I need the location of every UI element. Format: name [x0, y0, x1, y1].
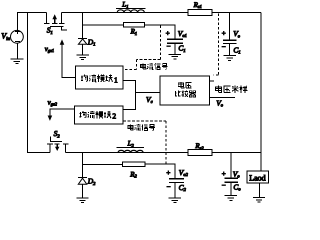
- wire top rail left: [17, 12, 47, 14]
- ground (C top bus): [223, 56, 235, 61]
- svg-text:+: +: [166, 30, 170, 38]
- capacitor C1: [167, 39, 183, 54]
- svg-text:Vo2: Vo2: [179, 168, 189, 177]
- ground (source): [10, 59, 23, 64]
- diode D1: [78, 38, 87, 55]
- capacitor C (top bus): [223, 13, 237, 56]
- wire bottom rail right: [212, 152, 261, 154]
- wire R1 tap: [83, 24, 124, 26]
- load box: [247, 153, 269, 197]
- svg-text:Rs1: Rs1: [193, 1, 202, 9]
- wire R2 to C2: [145, 164, 175, 179]
- svg-text:S2: S2: [54, 129, 61, 138]
- inductor L1: [116, 8, 145, 12]
- capacitor Co: [224, 153, 238, 195]
- svg-text:Vo: Vo: [233, 169, 241, 178]
- svg-text:vgs1: vgs1: [45, 45, 54, 53]
- svg-text:−: −: [167, 183, 171, 191]
- svg-text:+: +: [166, 169, 170, 177]
- wire R2 tap: [83, 163, 123, 165]
- svg-text:2: 2: [112, 112, 116, 121]
- svg-text:+: +: [222, 29, 226, 37]
- gate drive v_gs2 arrow: [48, 109, 75, 121]
- svg-text:C2: C2: [179, 183, 187, 192]
- svg-text:Vin: Vin: [1, 31, 10, 42]
- ground (C1): [169, 54, 181, 59]
- wire top rail right: [212, 12, 261, 14]
- node A (D1 branch): [82, 13, 84, 39]
- gate drive v_gs1 arrow: [60, 39, 76, 77]
- wire comparator output Vo: [210, 96, 235, 98]
- svg-text:C1: C1: [233, 45, 240, 54]
- wire comparator sense stub: [210, 80, 214, 82]
- label current-share module 2: [79, 111, 111, 119]
- ground (D1): [76, 55, 88, 59]
- resistor R1: [124, 23, 145, 28]
- inductor L2: [117, 147, 144, 152]
- wire module outputs junction: [123, 81, 136, 110]
- module 2 box: [75, 106, 124, 124]
- svg-text:C1: C1: [178, 44, 185, 53]
- wire bottom rail: [27, 152, 50, 154]
- module 1 box: [76, 66, 123, 89]
- svg-text:−: −: [222, 182, 226, 190]
- svg-text:Vc: Vc: [146, 95, 153, 104]
- ground (C2): [169, 198, 181, 202]
- svg-text:−: −: [167, 42, 171, 50]
- svg-text:S1: S1: [47, 26, 53, 35]
- svg-text:R2: R2: [129, 170, 137, 178]
- svg-text:R1: R1: [130, 28, 138, 36]
- wire R1 to C1: [144, 25, 175, 39]
- label voltage comparator: [175, 82, 196, 97]
- voltage source Vin: [11, 13, 24, 59]
- transistor S1: [44, 13, 67, 31]
- svg-text:Vo: Vo: [216, 98, 224, 107]
- transistor S2: [47, 136, 68, 152]
- label current-share module 1: [81, 75, 113, 83]
- ground (Co): [225, 196, 237, 201]
- svg-text:Co: Co: [233, 182, 241, 191]
- node A2 (D2 branch): [82, 153, 84, 178]
- label current-signal 2: [128, 124, 155, 130]
- svg-text:D2: D2: [87, 177, 96, 186]
- svg-text:Vo1: Vo1: [178, 29, 187, 38]
- wire top rail (S1 to node A to L1 to Rs1): [61, 12, 188, 14]
- svg-text:+: +: [222, 170, 226, 178]
- svg-text:1: 1: [114, 75, 118, 84]
- svg-text:vgs2: vgs2: [48, 98, 58, 106]
- svg-text:−: −: [222, 43, 226, 51]
- svg-text:Laod: Laod: [249, 173, 265, 182]
- ground (D2): [76, 198, 88, 202]
- label current-signal 1: [141, 63, 168, 69]
- ground (load): [253, 198, 265, 202]
- svg-text:L2: L2: [127, 140, 135, 148]
- capacitor C2: [169, 179, 184, 198]
- resistor Rs1: [188, 9, 212, 15]
- dashed current signal sense 2: [123, 120, 166, 122]
- comparator box: [160, 76, 210, 105]
- resistor R2: [123, 162, 146, 167]
- wire right bus: [260, 13, 262, 154]
- svg-text:D1: D1: [87, 37, 96, 46]
- svg-text:L1: L1: [121, 1, 128, 9]
- wire Vc to comparator: [136, 92, 161, 94]
- dashed voltage sense: [218, 14, 220, 76]
- svg-text:Vo: Vo: [233, 29, 241, 38]
- diode D2: [78, 178, 87, 198]
- resistor Rs2: [188, 150, 212, 156]
- label voltage sampling: [216, 86, 248, 93]
- wire left bus: [27, 13, 29, 153]
- svg-text:Rs2: Rs2: [194, 142, 204, 150]
- dashed current signal sense 1: [159, 26, 161, 60]
